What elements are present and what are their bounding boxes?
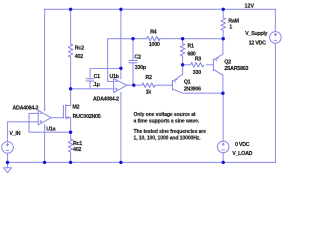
svg-text:M2: M2: [72, 104, 79, 110]
svg-text:Only one voltage source at: Only one voltage source at: [134, 112, 196, 118]
svg-text:C1: C1: [94, 74, 101, 80]
svg-text:ADA4084-2: ADA4084-2: [12, 106, 38, 112]
svg-text:0 VDC: 0 VDC: [235, 142, 250, 148]
svg-text:2N3906: 2N3906: [184, 86, 201, 92]
svg-text:V_Supply: V_Supply: [245, 31, 267, 37]
svg-text:R3: R3: [195, 56, 202, 62]
svg-text:C2: C2: [134, 55, 141, 61]
svg-text:ADA4084-2: ADA4084-2: [93, 96, 119, 102]
svg-text:12V: 12V: [245, 4, 255, 10]
svg-text:Q2: Q2: [224, 59, 231, 65]
svg-text:402: 402: [73, 147, 81, 153]
svg-text:RUC002N05: RUC002N05: [73, 114, 101, 120]
svg-text:.1µ: .1µ: [93, 82, 100, 88]
svg-text:V_LOAD: V_LOAD: [232, 151, 252, 157]
svg-text:U1a: U1a: [46, 126, 56, 132]
svg-text:V_IN: V_IN: [9, 131, 20, 137]
svg-text:The tested sine frequencies ar: The tested sine frequencies are: [134, 129, 207, 135]
svg-text:2SAR5863: 2SAR5863: [224, 66, 248, 72]
svg-text:330p: 330p: [135, 65, 147, 71]
svg-text:1, 10, 100, 1000 and 10000Hz.: 1, 10, 100, 1000 and 10000Hz.: [134, 136, 202, 142]
svg-text:1: 1: [229, 25, 232, 31]
svg-text:330: 330: [193, 70, 201, 76]
svg-text:U1b: U1b: [109, 74, 119, 80]
svg-text:R2: R2: [145, 75, 152, 81]
svg-text:R4: R4: [150, 30, 157, 36]
svg-text:R1: R1: [187, 44, 194, 50]
svg-text:1000: 1000: [149, 42, 160, 48]
svg-text:Q1: Q1: [184, 79, 191, 85]
svg-text:RaM: RaM: [228, 18, 239, 24]
svg-text:1k: 1k: [146, 90, 152, 96]
svg-text:a time supports a sine wave.: a time supports a sine wave.: [134, 119, 200, 125]
svg-text:12 VDC: 12 VDC: [249, 40, 266, 46]
svg-text:Rc2: Rc2: [75, 45, 84, 51]
svg-text:402: 402: [75, 54, 83, 60]
